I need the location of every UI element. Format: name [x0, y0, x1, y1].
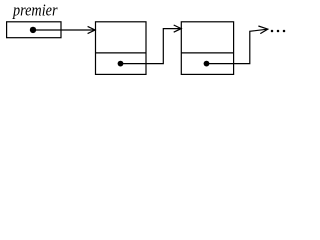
arrowhead into node2 [174, 25, 182, 32]
node1 cell box [96, 22, 147, 75]
arrowhead into node1 [88, 26, 96, 33]
dot in node2 next field [204, 61, 210, 67]
ellipsis dots [271, 30, 274, 33]
wire node2 dot onward [207, 29, 268, 63]
node2 cell box [181, 22, 233, 75]
wire node1 dot to node2 [121, 29, 181, 64]
pointer-variable box premier [7, 22, 61, 38]
node2 divider [181, 52, 233, 54]
wire premier dot to node1 [33, 29, 95, 31]
dot in premier box [30, 27, 36, 33]
dot in node1 next field [118, 61, 124, 67]
node1 divider [96, 52, 147, 54]
svg-text:premier: premier [12, 0, 58, 19]
arrowhead to ellipsis [258, 26, 267, 34]
